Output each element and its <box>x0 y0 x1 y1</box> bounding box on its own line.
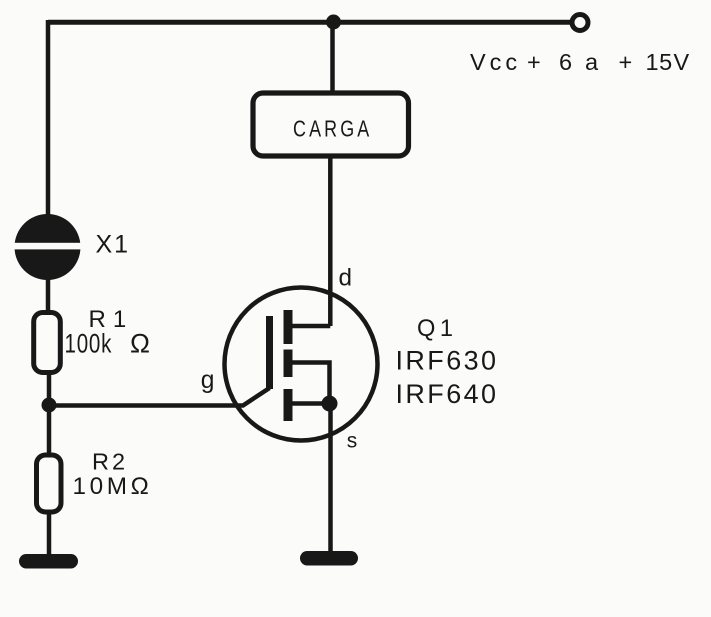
svg-text:10MΩ: 10MΩ <box>73 473 153 500</box>
svg-text:Vcc+6a+15V: Vcc+6a+15V <box>470 49 690 75</box>
transistor Q1 body circle <box>225 288 378 441</box>
wire CARGA to drain <box>328 157 333 326</box>
svg-text:Ω: Ω <box>130 329 150 359</box>
node source junction <box>322 396 338 412</box>
resistor R2 <box>37 449 153 513</box>
node gate junction <box>42 398 57 413</box>
resistor R1 <box>34 306 150 373</box>
svg-text:IRF640: IRF640 <box>396 379 499 409</box>
wire gate from node to Q1 gate <box>49 388 270 406</box>
transistor Q1 channel segment middle <box>284 350 293 378</box>
wire drain connection inside Q1 <box>288 324 330 329</box>
wire source to ground <box>328 403 333 553</box>
svg-text:s: s <box>347 429 358 452</box>
wire R1 to gate node <box>47 372 52 405</box>
svg-text:d: d <box>339 265 353 292</box>
node top junction <box>326 15 341 30</box>
svg-text:100k: 100k <box>65 329 113 359</box>
svg-text:Q1: Q1 <box>417 316 457 342</box>
wire X1 to R1 <box>46 278 51 312</box>
wire junction down to CARGA <box>330 22 335 93</box>
transistor Q1 channel segment bottom <box>284 389 293 421</box>
wire top rail from left corner to Vcc terminal <box>48 20 570 25</box>
load CARGA <box>253 93 409 156</box>
terminal Vcc <box>572 15 588 31</box>
svg-text:R2: R2 <box>92 449 128 475</box>
wire body to source connection inside Q1 <box>288 363 330 404</box>
svg-text:g: g <box>201 367 215 394</box>
wire left vertical from top rail to X1 <box>46 20 51 216</box>
transistor Q1 channel segment top <box>284 310 293 344</box>
svg-text:IRF630: IRF630 <box>396 346 499 376</box>
svg-text:CARGA: CARGA <box>293 116 372 142</box>
svg-text:X1: X1 <box>96 231 131 259</box>
transducer X1 <box>9 214 130 280</box>
transistor Q1 gate bar <box>266 316 273 389</box>
ground bottom <box>300 551 358 566</box>
ground left <box>19 554 78 569</box>
wire gate node to R2 <box>47 405 52 455</box>
wire R2 to ground <box>47 512 52 556</box>
wire source connection inside Q1 <box>288 401 330 406</box>
